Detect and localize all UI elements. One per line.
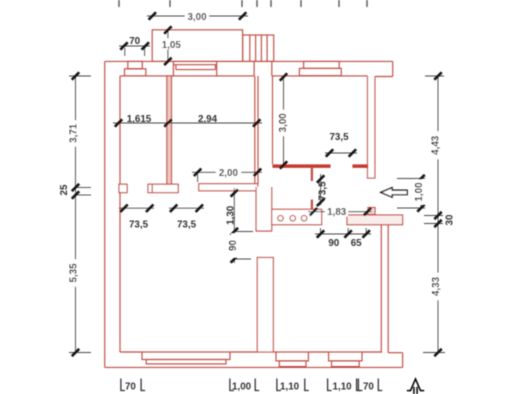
- svg-text:1,00: 1,00: [414, 182, 425, 202]
- svg-text:1,00: 1,00: [232, 382, 252, 393]
- svg-text:70: 70: [363, 382, 374, 393]
- svg-text:1,30: 1,30: [225, 205, 236, 225]
- svg-text:1,83: 1,83: [327, 207, 347, 218]
- svg-text:73,5: 73,5: [129, 220, 149, 231]
- svg-text:2,00: 2,00: [219, 168, 239, 179]
- svg-text:1,615: 1,615: [127, 114, 152, 125]
- svg-text:1,10: 1,10: [280, 382, 300, 393]
- svg-text:3,71: 3,71: [68, 123, 79, 143]
- svg-text:2,94: 2,94: [198, 114, 218, 125]
- svg-text:5,35: 5,35: [69, 263, 80, 283]
- svg-text:70: 70: [129, 36, 140, 47]
- svg-text:73,5: 73,5: [177, 220, 197, 231]
- svg-text:25: 25: [59, 184, 70, 195]
- svg-text:65: 65: [351, 238, 362, 249]
- svg-text:3,00: 3,00: [187, 12, 207, 23]
- svg-text:1,05: 1,05: [162, 40, 182, 51]
- svg-text:73,5: 73,5: [329, 132, 349, 143]
- svg-text:30: 30: [444, 214, 455, 225]
- svg-text:73,5: 73,5: [318, 181, 329, 201]
- svg-text:70: 70: [125, 382, 136, 393]
- svg-text:4,43: 4,43: [431, 135, 442, 155]
- svg-text:90: 90: [328, 238, 339, 249]
- svg-text:90: 90: [228, 240, 239, 251]
- svg-text:4,33: 4,33: [431, 276, 442, 296]
- svg-text:1,10: 1,10: [333, 382, 353, 393]
- svg-text:3,00: 3,00: [278, 113, 289, 133]
